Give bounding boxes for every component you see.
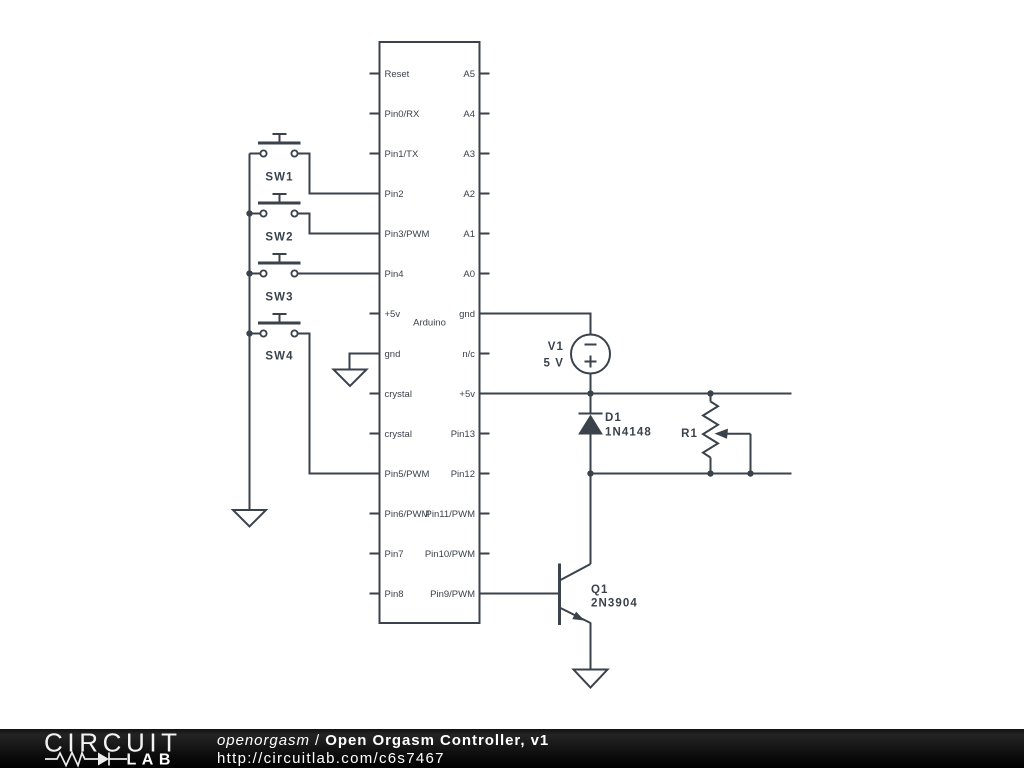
- wire SW1 right to Pin2: [296, 154, 380, 194]
- pin Pin12: [451, 469, 490, 480]
- node junction R1 top on +5v net: [707, 390, 713, 396]
- node junction rail-SW4: [246, 330, 252, 336]
- pin Pin13: [451, 429, 490, 440]
- svg-text:5 V: 5 V: [543, 358, 564, 370]
- pin Pin11/PWM: [426, 509, 490, 520]
- svg-text:Pin5/PWM: Pin5/PWM: [385, 469, 430, 480]
- svg-text:Pin3/PWM: Pin3/PWM: [385, 229, 430, 240]
- pin Pin9/PWM: [430, 589, 475, 600]
- voltage source V1: [571, 335, 610, 374]
- svg-text:A5: A5: [463, 69, 475, 80]
- wire SW4 left lead: [250, 333, 263, 335]
- wire SW2 right to Pin3/PWM: [296, 214, 380, 234]
- pin A2: [463, 189, 489, 200]
- pin Reset: [370, 69, 410, 80]
- pin crystal 2: [370, 429, 412, 440]
- svg-text:1N4148: 1N4148: [605, 427, 652, 439]
- svg-text:A4: A4: [463, 109, 475, 120]
- wire SW4 right to Pin5/PWM: [296, 334, 380, 474]
- logo resistor-diode glyph: [45, 753, 127, 766]
- diode D1: [579, 414, 603, 435]
- pin +5v right: [459, 389, 475, 400]
- svg-text:A2: A2: [463, 189, 475, 200]
- svg-text:2N3904: 2N3904: [591, 598, 638, 610]
- ground GND2 (chip gnd): [334, 370, 367, 387]
- wire SW3 right to Pin4: [296, 273, 380, 275]
- pin A3: [463, 149, 489, 160]
- pin gnd left: [385, 349, 401, 360]
- node junction R1 bottom on bottom net: [707, 470, 713, 476]
- wire D1 cathode lead: [590, 394, 592, 415]
- wire SW1 left lead: [250, 153, 263, 155]
- wire left rail SW1-SW4 to ground: [249, 154, 251, 511]
- ground GND3 (Q1 emitter): [574, 670, 608, 688]
- svg-text:SW3: SW3: [265, 292, 293, 304]
- svg-text:openorgasm / Open Orgasm Contr: openorgasm / Open Orgasm Controller, v1: [217, 732, 549, 749]
- svg-text:Pin12: Pin12: [451, 469, 475, 480]
- pin Pin0/RX: [370, 109, 421, 120]
- svg-text:A1: A1: [463, 229, 475, 240]
- svg-text:Pin9/PWM: Pin9/PWM: [430, 589, 475, 600]
- switch SW1 pushbutton: [258, 134, 301, 184]
- svg-text:gnd: gnd: [459, 309, 475, 320]
- wire Pin9/PWM to Q1 base: [480, 593, 560, 595]
- svg-text:SW4: SW4: [265, 351, 293, 363]
- pin Pin10/PWM: [425, 549, 490, 560]
- svg-text:LAB: LAB: [127, 752, 176, 768]
- node junction rail-SW3: [246, 270, 252, 276]
- potentiometer R1: [703, 394, 751, 474]
- svg-text:Reset: Reset: [385, 69, 410, 80]
- switch SW2 pushbutton: [258, 194, 301, 244]
- svg-text:Pin10/PWM: Pin10/PWM: [425, 549, 475, 560]
- svg-text:Pin11/PWM: Pin11/PWM: [426, 509, 476, 520]
- node junction V1/D1 on +5v net: [587, 390, 593, 396]
- pin A5: [463, 69, 489, 80]
- pin Pin6/PWM: [370, 509, 430, 520]
- svg-text:V1: V1: [548, 341, 564, 353]
- pin Pin1/TX: [370, 149, 419, 160]
- svg-text:R1: R1: [681, 428, 698, 440]
- svg-text:crystal: crystal: [385, 429, 412, 440]
- svg-text:+5v: +5v: [385, 309, 401, 320]
- svg-text:n/c: n/c: [462, 349, 475, 360]
- svg-text:crystal: crystal: [385, 389, 412, 400]
- pin Pin3/PWM: [385, 229, 430, 240]
- wire +5v net horizontal: [480, 393, 792, 395]
- switch SW3 pushbutton: [258, 254, 301, 304]
- svg-text:Pin4: Pin4: [385, 269, 404, 280]
- svg-text:Pin2: Pin2: [385, 189, 404, 200]
- wire SW2 left lead: [250, 213, 263, 215]
- wire V1 bottom to +5v net: [590, 374, 592, 394]
- svg-text:A3: A3: [463, 149, 475, 160]
- node junction wiper on bottom net: [747, 470, 753, 476]
- wire D1 anode down to Q1 collector: [590, 434, 592, 564]
- node junction rail-SW2: [246, 210, 252, 216]
- svg-text:Pin13: Pin13: [451, 429, 475, 440]
- svg-text:Pin8: Pin8: [385, 589, 404, 600]
- pin Pin7: [370, 549, 404, 560]
- node junction D1/Q1 on bottom net: [587, 470, 593, 476]
- pin +5v left: [370, 309, 401, 320]
- svg-text:Q1: Q1: [591, 584, 609, 596]
- pin Pin4: [385, 269, 404, 280]
- pin A0: [463, 269, 489, 280]
- transistor Q1 NPN: [560, 564, 591, 626]
- wire Q1 emitter to ground: [590, 623, 592, 670]
- svg-text:Pin0/RX: Pin0/RX: [385, 109, 421, 120]
- svg-text:SW1: SW1: [265, 172, 293, 184]
- svg-text:http://circuitlab.com/c6s7467: http://circuitlab.com/c6s7467: [217, 750, 445, 767]
- wire bottom net horizontal: [591, 473, 792, 475]
- pin crystal 1: [370, 389, 412, 400]
- svg-text:D1: D1: [605, 412, 622, 424]
- wire chip gnd right to V1 top: [480, 314, 591, 335]
- svg-text:Pin6/PWM: Pin6/PWM: [385, 509, 430, 520]
- switch SW4 pushbutton: [258, 314, 301, 363]
- svg-text:Arduino: Arduino: [413, 318, 446, 329]
- svg-text:SW2: SW2: [265, 232, 293, 244]
- ground GND1 (left rail): [233, 510, 266, 527]
- wire chip gnd left to ground: [350, 354, 380, 370]
- pin A4: [463, 109, 489, 120]
- pin Pin5/PWM: [385, 469, 430, 480]
- pin Pin8: [370, 589, 404, 600]
- pin gnd right: [459, 309, 475, 320]
- IC U1 Arduino body: [380, 42, 480, 623]
- svg-text:Pin1/TX: Pin1/TX: [385, 149, 419, 160]
- pin n/c: [462, 349, 489, 360]
- pin Pin2: [385, 189, 404, 200]
- svg-text:+5v: +5v: [459, 389, 475, 400]
- svg-text:A0: A0: [463, 269, 475, 280]
- pin A1: [463, 229, 489, 240]
- footer bar: [0, 729, 1024, 768]
- wire SW3 left lead: [250, 273, 263, 275]
- svg-text:Pin7: Pin7: [385, 549, 404, 560]
- svg-text:gnd: gnd: [385, 349, 401, 360]
